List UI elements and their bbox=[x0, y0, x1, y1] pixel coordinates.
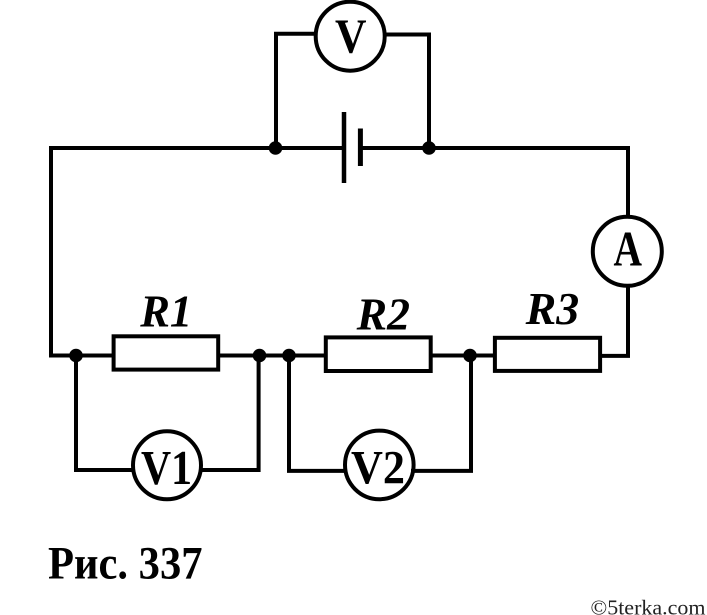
wire between R2 and R3 bbox=[432, 354, 495, 358]
svg-text:V2: V2 bbox=[351, 442, 405, 495]
svg-text:©5terka.com: ©5terka.com bbox=[591, 596, 706, 615]
node junction left of R1 bbox=[69, 349, 83, 363]
caption Рис. 337 bbox=[48, 539, 203, 590]
svg-text:R2: R2 bbox=[356, 289, 410, 340]
node junction right of R2 bbox=[463, 349, 477, 363]
resistor R2 bbox=[326, 289, 431, 372]
wire voltmeter V2 left lead bbox=[289, 355, 347, 471]
wire voltmeter V left lead bbox=[276, 34, 316, 148]
wire middle left segment bbox=[49, 354, 113, 358]
svg-text:Рис. 337: Рис. 337 bbox=[48, 539, 203, 590]
wire top-left horizontal (left corner to battery) bbox=[51, 146, 342, 150]
watermark 5terka.com bbox=[591, 596, 706, 615]
svg-text:R1: R1 bbox=[139, 286, 192, 337]
resistor R3 bbox=[495, 283, 600, 371]
wire between R1 and R2 bbox=[220, 354, 326, 358]
wire voltmeter V right lead bbox=[385, 35, 429, 149]
node junction right of R1 bbox=[253, 349, 267, 363]
svg-text:R3: R3 bbox=[525, 283, 580, 334]
voltmeter V1 bbox=[133, 431, 201, 499]
node junction right of battery bbox=[422, 141, 436, 155]
wire voltmeter V1 right lead bbox=[199, 355, 259, 470]
resistor R1 bbox=[114, 286, 219, 370]
svg-text:V: V bbox=[335, 9, 367, 64]
wire voltmeter V1 left lead bbox=[76, 355, 135, 470]
wire right vertical lower (ammeter to R3) bbox=[602, 286, 628, 356]
wire voltmeter V2 right lead bbox=[411, 355, 471, 471]
node junction left of R2 branch bbox=[282, 349, 296, 363]
node junction left of battery bbox=[269, 141, 283, 155]
battery GB1 long plate bbox=[342, 112, 347, 183]
battery GB1 short plate bbox=[358, 129, 363, 167]
wire top-right horizontal (battery to right corner) bbox=[362, 146, 628, 150]
ammeter A bbox=[593, 217, 662, 286]
wire right vertical upper (to ammeter) bbox=[626, 146, 630, 217]
voltmeter V2 bbox=[345, 431, 414, 500]
svg-text:V1: V1 bbox=[141, 440, 192, 495]
svg-text:A: A bbox=[614, 221, 643, 277]
voltmeter V bbox=[316, 2, 385, 71]
wire left vertical side bbox=[49, 146, 53, 356]
